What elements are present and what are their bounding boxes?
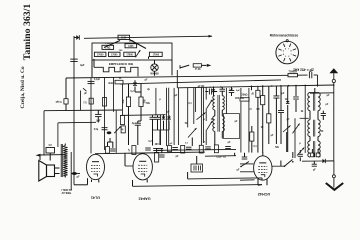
svg-text:Röhrenanschlüsse: Röhrenanschlüsse [270, 34, 299, 38]
svg-text:2µF: 2µF [236, 90, 240, 92]
svg-text:0,1µF 0Ω: 0,1µF 0Ω [216, 157, 226, 159]
svg-text:0,1µF: 0,1µF [55, 100, 62, 103]
svg-text:2µF: 2µF [229, 90, 234, 92]
svg-text:0,5µ: 0,5µ [94, 129, 99, 131]
svg-text:µF 0Ω: µF 0Ω [198, 86, 205, 88]
svg-text:UL41: UL41 [91, 196, 100, 200]
svg-text:T808-AV: T808-AV [61, 191, 71, 194]
svg-text:20kΩ: 20kΩ [242, 94, 248, 97]
svg-text:1500: 1500 [121, 37, 127, 40]
svg-text:+: + [209, 86, 211, 90]
svg-text:UCH42: UCH42 [258, 192, 270, 196]
svg-text:AV-306L /: AV-306L / [61, 188, 72, 191]
svg-text:Czeija, Nissl u. Co: Czeija, Nissl u. Co [20, 66, 26, 108]
svg-text:0,1µF: 0,1µF [94, 79, 101, 81]
svg-text:17000: 17000 [97, 55, 104, 57]
svg-text:1 kΩ: 1 kΩ [105, 48, 110, 50]
svg-text:1 kΩ1: 1 kΩ1 [105, 43, 112, 45]
svg-text:17000: 17000 [126, 55, 133, 57]
svg-text:17000: 17000 [111, 55, 118, 57]
svg-text:17000: 17000 [153, 55, 160, 57]
svg-text:Tamino 363/1: Tamino 363/1 [22, 4, 33, 61]
svg-text:ZF = 452 kHz: ZF = 452 kHz [293, 67, 314, 71]
svg-text:1kΩ: 1kΩ [108, 82, 113, 85]
svg-text:UAF42: UAF42 [138, 197, 150, 201]
svg-text:EMPFLENCO 40B: EMPFLENCO 40B [109, 62, 133, 66]
